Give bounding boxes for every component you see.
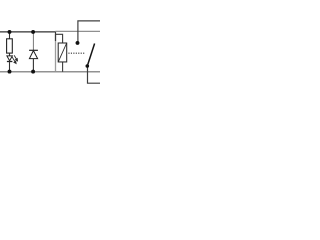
wire resistor top lead xyxy=(9,32,11,39)
LED cathode bar xyxy=(7,61,12,63)
relay coil K1 box xyxy=(58,43,66,62)
node dot top-middle xyxy=(31,30,35,34)
resistor R1 (IEC box) xyxy=(7,39,13,53)
background xyxy=(0,0,100,100)
wire diode top lead xyxy=(32,32,34,51)
node dot top-left xyxy=(8,30,12,34)
LED D1 triangle xyxy=(7,56,12,61)
wire bottom rail xyxy=(0,71,100,73)
wire coil top jog xyxy=(55,32,57,41)
wire top rail left (dark) xyxy=(0,31,56,33)
wire resistor-LED lead xyxy=(9,53,11,56)
wire top rail right (gray) xyxy=(55,30,100,32)
switch lever xyxy=(87,44,94,67)
wire coil bottom stub xyxy=(62,62,64,72)
diode D2 triangle (apex up) xyxy=(29,51,37,59)
wire bottom-right contact lead xyxy=(88,66,101,83)
switch pivot dot xyxy=(86,64,90,68)
wire LED bottom lead xyxy=(9,62,11,72)
wire gray vertical at coil left xyxy=(55,34,57,72)
node dot bottom-middle xyxy=(31,70,35,74)
relay coil diagonal xyxy=(58,43,66,62)
mechanical link (dotted) xyxy=(68,52,84,54)
LED arrow 1 xyxy=(12,57,16,64)
wire top-right contact lead xyxy=(78,21,100,43)
node dot bottom-left xyxy=(8,70,12,74)
switch fixed contact dot xyxy=(76,41,80,45)
diode D2 cathode bar xyxy=(29,49,38,51)
LED arrow 2 xyxy=(14,55,17,61)
wire diode bottom lead xyxy=(32,59,34,72)
